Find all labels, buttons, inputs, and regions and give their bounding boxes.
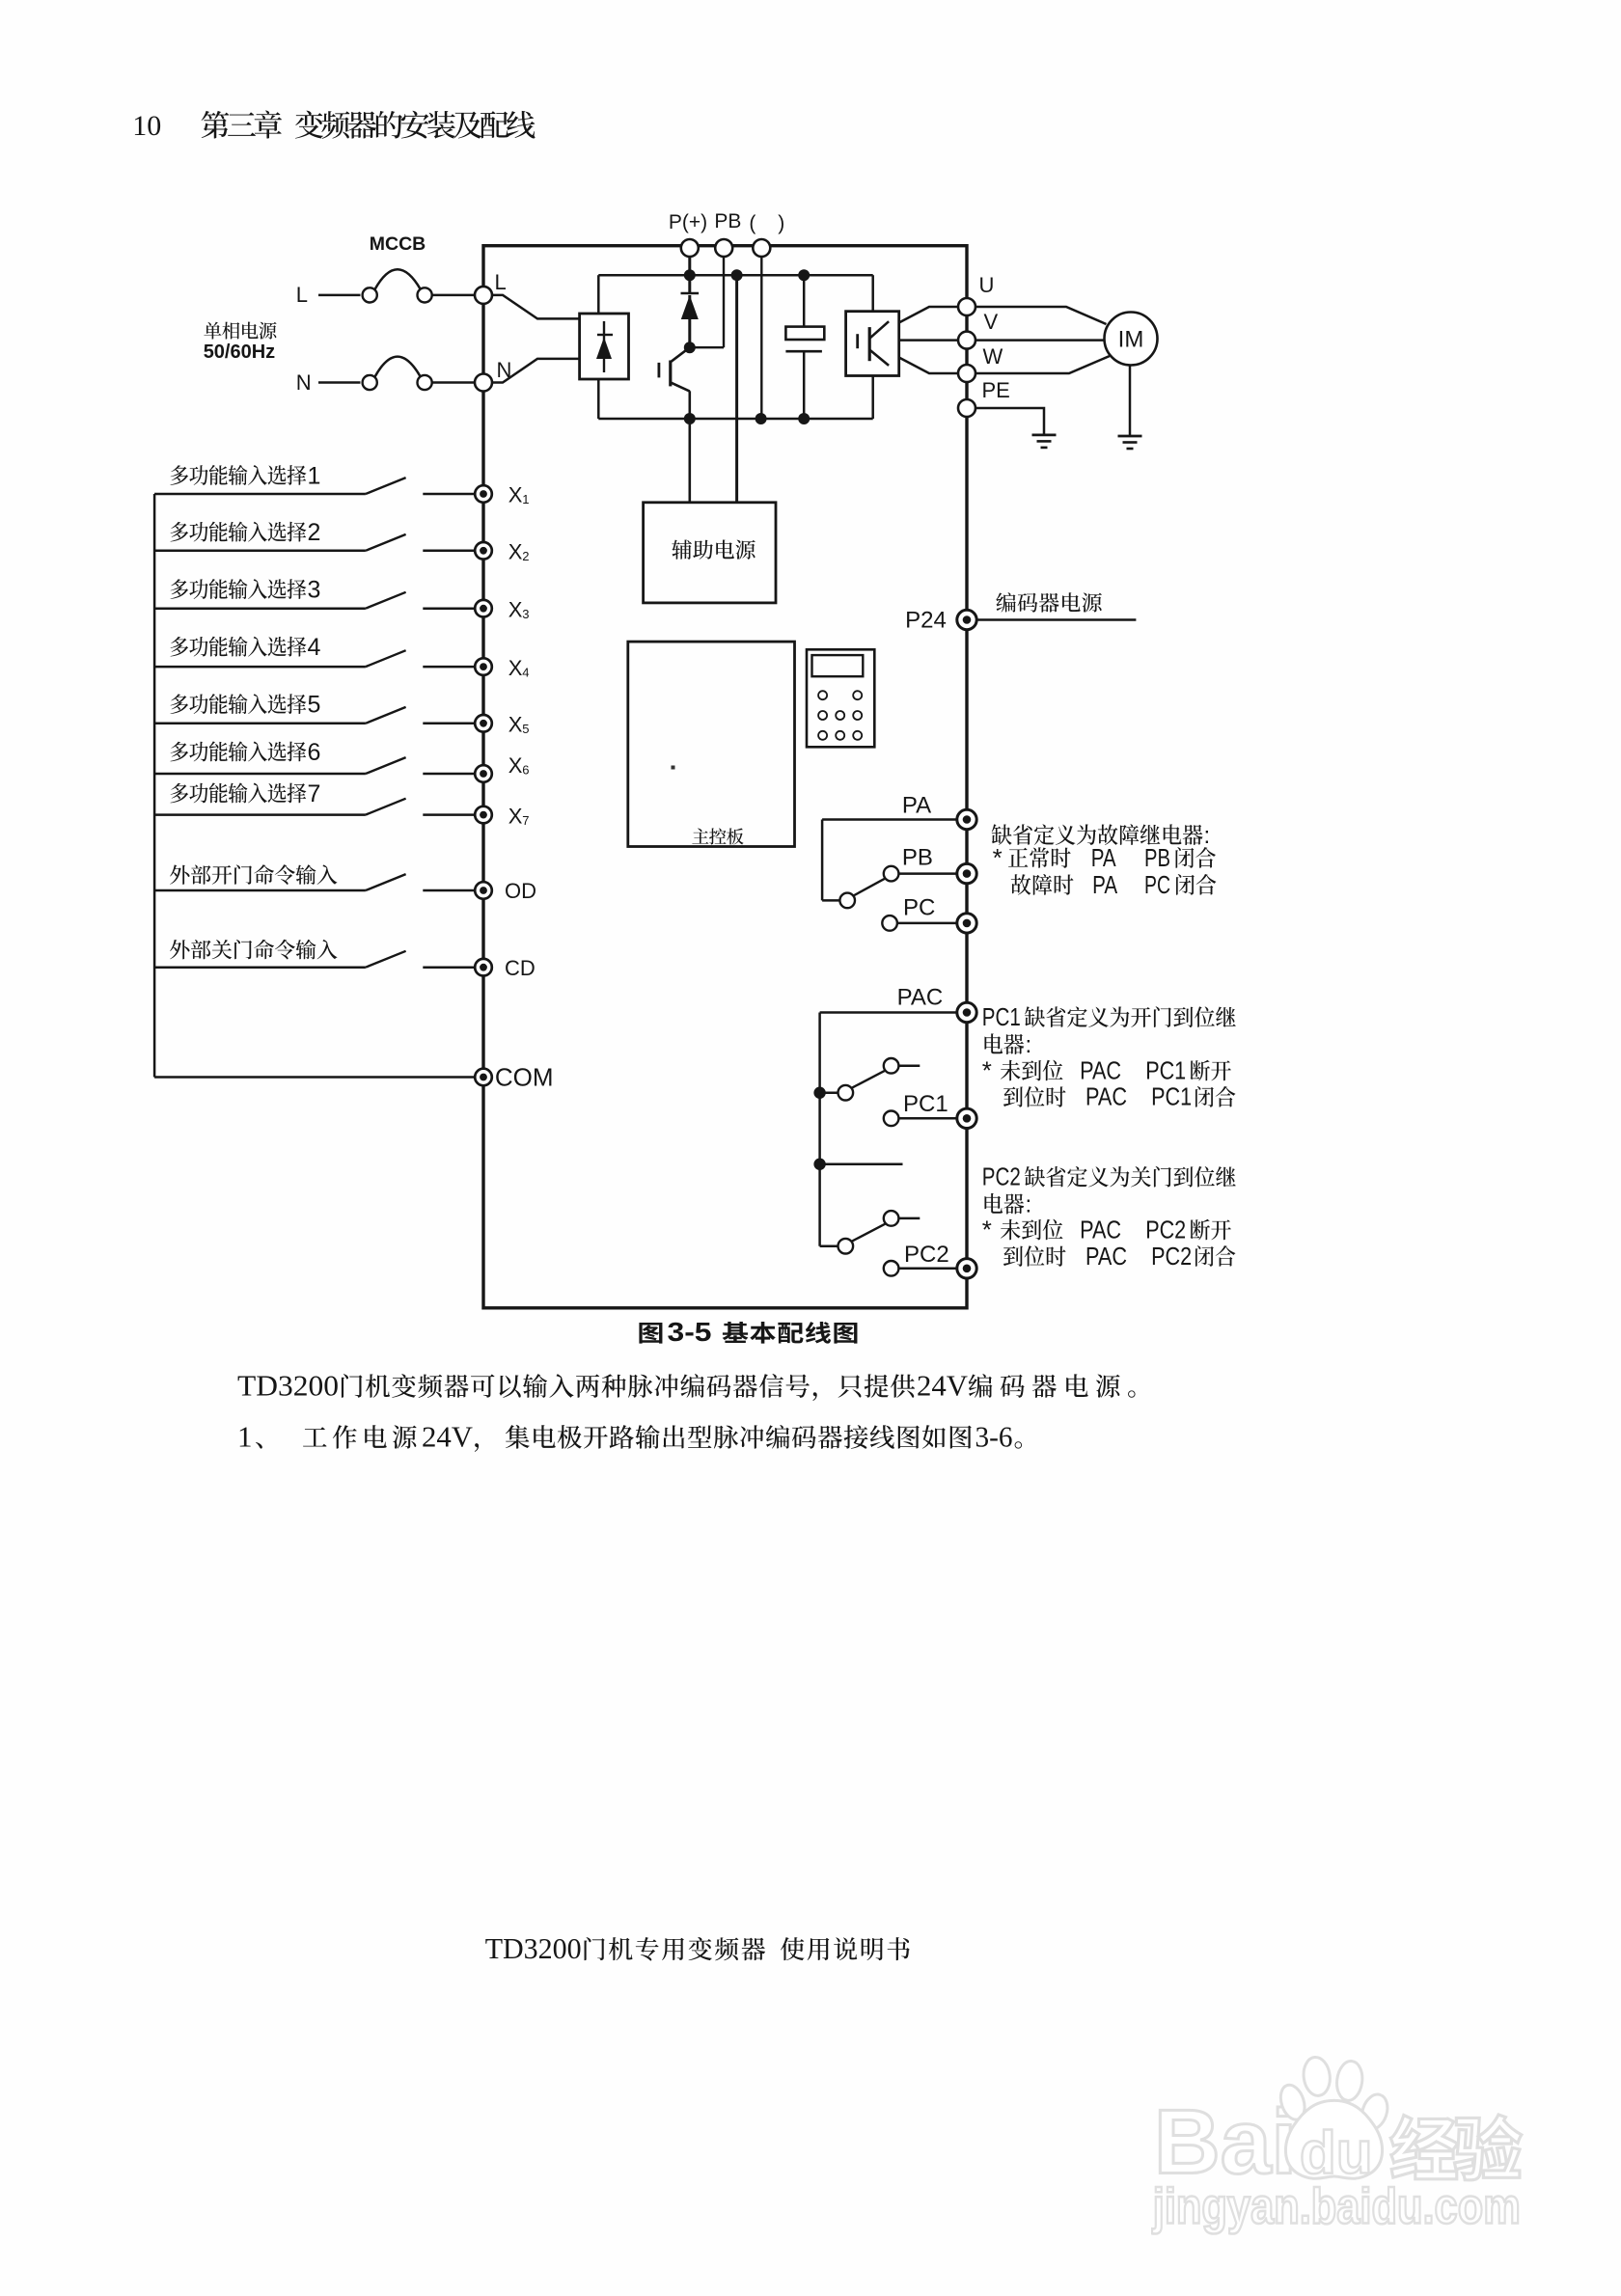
svg-text:PC2: PC2 xyxy=(904,1242,949,1268)
svg-text:V: V xyxy=(984,310,999,334)
svg-text:MCCB: MCCB xyxy=(370,233,426,255)
svg-text:PC: PC xyxy=(1144,870,1170,899)
svg-text:X: X xyxy=(508,483,523,507)
svg-text:W: W xyxy=(983,344,1003,369)
svg-text:PAC: PAC xyxy=(897,985,944,1011)
svg-text:PAC: PAC xyxy=(1085,1082,1127,1111)
svg-text:X: X xyxy=(508,540,523,564)
svg-text:X: X xyxy=(508,713,523,737)
svg-text:PA: PA xyxy=(1091,843,1117,872)
svg-text:N: N xyxy=(296,370,312,395)
svg-text:PC2: PC2 xyxy=(1151,1242,1192,1271)
svg-text:PAC: PAC xyxy=(1080,1055,1121,1084)
svg-text:3: 3 xyxy=(308,577,321,604)
svg-text:PA: PA xyxy=(1092,870,1118,899)
svg-text:): ) xyxy=(778,212,784,234)
svg-text:X: X xyxy=(508,753,523,778)
svg-text:*: * xyxy=(993,843,1003,872)
svg-text:4: 4 xyxy=(522,665,529,679)
svg-text::: : xyxy=(1204,823,1211,849)
svg-text:1: 1 xyxy=(237,1420,253,1454)
svg-text:CD: CD xyxy=(505,956,536,980)
svg-text:1: 1 xyxy=(522,492,529,506)
svg-text:3-5: 3-5 xyxy=(668,1317,712,1347)
svg-text:PC2: PC2 xyxy=(982,1162,1021,1191)
svg-text:*: * xyxy=(982,1055,992,1084)
svg-text:2: 2 xyxy=(308,519,321,546)
svg-text:PC1: PC1 xyxy=(903,1091,948,1117)
svg-text:P24: P24 xyxy=(905,608,947,634)
svg-text:50/60Hz: 50/60Hz xyxy=(204,342,276,363)
svg-text:5: 5 xyxy=(308,692,321,719)
svg-text:PC1: PC1 xyxy=(1151,1082,1192,1111)
svg-text::: : xyxy=(1026,1192,1032,1218)
svg-text:PAC: PAC xyxy=(1085,1242,1127,1271)
svg-text:COM: COM xyxy=(495,1063,554,1092)
svg-text:PA: PA xyxy=(902,793,931,819)
svg-text:du: du xyxy=(1300,2120,1373,2187)
svg-text:2: 2 xyxy=(522,549,529,563)
svg-text:PE: PE xyxy=(982,378,1010,402)
svg-text:24V: 24V xyxy=(422,1420,474,1454)
svg-text:3-6: 3-6 xyxy=(975,1420,1013,1454)
svg-text:PB: PB xyxy=(902,845,933,871)
svg-text:PC: PC xyxy=(903,895,935,921)
svg-text:PC2: PC2 xyxy=(1145,1215,1186,1244)
svg-text:X: X xyxy=(508,597,523,621)
svg-text:TD3200: TD3200 xyxy=(485,1931,582,1965)
svg-text:3: 3 xyxy=(522,607,529,621)
svg-text::: : xyxy=(1026,1032,1032,1058)
svg-text:U: U xyxy=(979,273,995,297)
svg-text:PB: PB xyxy=(1144,843,1170,872)
svg-text:X: X xyxy=(508,804,523,828)
svg-text:L: L xyxy=(495,270,507,294)
svg-text:24V: 24V xyxy=(917,1369,969,1403)
svg-text:PC1: PC1 xyxy=(982,1002,1021,1031)
svg-text:1: 1 xyxy=(308,463,321,490)
svg-text:IM: IM xyxy=(1118,327,1144,353)
svg-text:4: 4 xyxy=(308,634,321,661)
svg-text:10: 10 xyxy=(132,110,161,142)
svg-text:7: 7 xyxy=(522,813,529,828)
svg-text:6: 6 xyxy=(522,763,529,778)
svg-text:P(+): P(+) xyxy=(669,211,707,233)
svg-text:jingyan.baidu.com: jingyan.baidu.com xyxy=(1152,2178,1521,2234)
svg-text:*: * xyxy=(982,1215,992,1244)
svg-text:7: 7 xyxy=(308,780,321,807)
svg-text:(: ( xyxy=(749,212,756,234)
svg-text:5: 5 xyxy=(522,722,529,736)
svg-text:6: 6 xyxy=(308,739,321,766)
svg-text:TD3200: TD3200 xyxy=(237,1369,339,1403)
svg-text:PAC: PAC xyxy=(1080,1215,1121,1244)
svg-text:PC1: PC1 xyxy=(1145,1055,1186,1084)
svg-text:L: L xyxy=(296,283,308,307)
svg-text:X: X xyxy=(508,656,523,680)
svg-text:PB: PB xyxy=(714,210,741,232)
svg-text:OD: OD xyxy=(505,879,536,903)
